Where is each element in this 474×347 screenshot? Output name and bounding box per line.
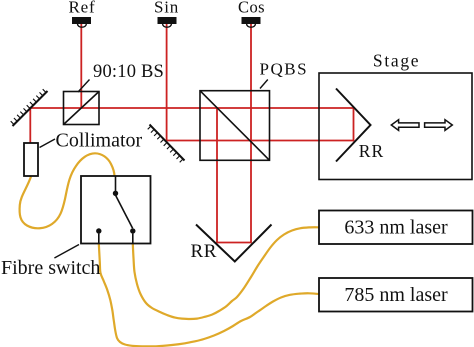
beamsplitter PQBS xyxy=(200,91,270,161)
laser box 633 xyxy=(319,211,473,245)
svg-text:Sin: Sin xyxy=(154,0,179,16)
laser box 785 xyxy=(319,278,473,312)
svg-text:Fibre switch: Fibre switch xyxy=(1,257,100,279)
detector Ref xyxy=(72,17,91,27)
switch pole dot xyxy=(113,191,118,196)
fibre: switch left port to 785 nm laser xyxy=(99,244,319,347)
pointer line PQBS xyxy=(260,80,268,89)
svg-text:Collimator: Collimator xyxy=(56,129,143,151)
wire: beam Cos vertical xyxy=(250,24,252,243)
svg-text:RR: RR xyxy=(359,141,384,161)
wire: beam bottom RR horizontal xyxy=(216,242,252,244)
switch input stub xyxy=(115,176,117,191)
wire: beam lower horizontal xyxy=(166,140,354,142)
detector Cos xyxy=(242,17,261,27)
mirror M2 (center) xyxy=(148,125,185,163)
switch arm xyxy=(116,196,133,229)
fibre: collimator to switch xyxy=(20,153,115,228)
collimator xyxy=(24,143,38,176)
wire: beam PQBS down vertical xyxy=(216,108,218,243)
pointer line Collimator xyxy=(40,139,56,148)
svg-text:RR: RR xyxy=(191,241,218,262)
switch throw dot right xyxy=(130,228,135,233)
switch right stub xyxy=(132,234,134,244)
wire: beam stage retro vertical xyxy=(353,107,355,141)
arrow right xyxy=(425,120,453,131)
wire: beam main horizontal xyxy=(29,107,353,109)
arrow left xyxy=(391,120,419,131)
fibre switch box xyxy=(81,176,151,244)
wire: beam Sin vertical xyxy=(166,24,168,142)
svg-text:Stage: Stage xyxy=(373,51,420,71)
svg-text:90:10 BS: 90:10 BS xyxy=(93,62,164,82)
retroreflector RR (stage) xyxy=(336,89,371,162)
beamsplitter 90:10 BS xyxy=(64,92,100,125)
svg-text:Ref: Ref xyxy=(69,0,96,16)
svg-text:PQBS: PQBS xyxy=(260,60,309,79)
svg-text:633 nm laser: 633 nm laser xyxy=(344,217,448,239)
fibre: switch right port to 633 nm laser xyxy=(133,227,319,319)
pointer line 90:10 BS xyxy=(78,80,90,93)
svg-text:785 nm laser: 785 nm laser xyxy=(344,284,448,306)
stage box xyxy=(319,73,472,180)
mirror M1 (left) xyxy=(11,89,48,126)
switch left stub xyxy=(98,234,100,244)
wire: beam to collimator vertical xyxy=(29,108,31,144)
wire: beam Ref vertical xyxy=(80,24,82,108)
detector Sin xyxy=(158,17,177,27)
retroreflector RR (bottom) xyxy=(196,225,272,262)
switch throw dot left xyxy=(96,228,101,233)
svg-text:Cos: Cos xyxy=(238,0,265,16)
pointer line Fibre switch xyxy=(54,245,79,259)
